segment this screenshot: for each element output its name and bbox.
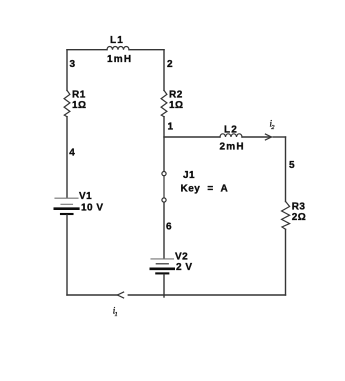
wire arrowhead to right corner	[273, 136, 286, 138]
switch J1 blade	[163, 176, 165, 198]
wire R2 to node 1 to switch J1	[163, 117, 165, 171]
switch J1 terminal circle top	[162, 172, 166, 176]
wire right branch upper (node 5 to R3)	[285, 137, 287, 202]
arrowhead i2 (pointing right)	[265, 134, 271, 140]
svg-text:2 V: 2 V	[176, 262, 193, 273]
wire top-left to L1	[67, 49, 107, 51]
svg-text:R2: R2	[169, 90, 183, 101]
svg-text:1: 1	[168, 122, 174, 133]
wire V2 to bottom junction	[163, 275, 165, 298]
svg-text:3: 3	[70, 59, 76, 70]
svg-text:J1: J1	[183, 170, 195, 181]
svg-text:V2: V2	[175, 252, 188, 263]
wire R3 to bottom-right corner	[285, 229, 287, 295]
wire L1 to node 2 corner	[129, 49, 164, 51]
svg-text:R1: R1	[72, 90, 86, 101]
inductor L1	[107, 47, 129, 50]
wire J1 to V2 (node 6)	[163, 202, 165, 258]
svg-text:2mH: 2mH	[220, 142, 245, 153]
battery V1	[55, 198, 79, 214]
svg-text:2Ω: 2Ω	[292, 212, 307, 223]
resistor R2	[161, 90, 167, 116]
wire left branch upper (node 3 to R1)	[66, 50, 68, 91]
svg-text:L2: L2	[224, 125, 238, 136]
wire bottom (right segment to corner)	[128, 294, 285, 296]
svg-text:1Ω: 1Ω	[72, 100, 87, 111]
resistor R3	[282, 202, 290, 230]
wire V1 to bottom-left corner	[66, 215, 68, 295]
svg-text:2: 2	[167, 59, 173, 70]
switch J1 terminal circle bottom	[162, 198, 166, 202]
wire node 1 horizontal to L2	[164, 136, 220, 138]
arrowhead i1 (pointing left)	[117, 292, 123, 298]
resistor R1	[64, 90, 70, 116]
svg-text:1mH: 1mH	[107, 54, 132, 65]
svg-text:10 V: 10 V	[81, 203, 104, 214]
wire R1 to V1 (node 4)	[66, 117, 68, 198]
battery V2	[151, 259, 174, 274]
wire bottom (left segment to arrowhead)	[67, 294, 117, 296]
svg-text:R3: R3	[292, 201, 306, 212]
wire L2 to arrowhead	[242, 136, 271, 138]
svg-text:4: 4	[69, 148, 75, 159]
svg-text:6: 6	[166, 222, 172, 233]
svg-text:Key = A: Key = A	[181, 184, 229, 195]
svg-text:1Ω: 1Ω	[169, 100, 184, 111]
svg-text:L1: L1	[110, 35, 124, 46]
wire middle branch upper (node 2 to R2)	[163, 50, 165, 91]
svg-text:5: 5	[289, 160, 295, 171]
inductor L2	[220, 134, 242, 137]
svg-text:V1: V1	[79, 191, 92, 202]
